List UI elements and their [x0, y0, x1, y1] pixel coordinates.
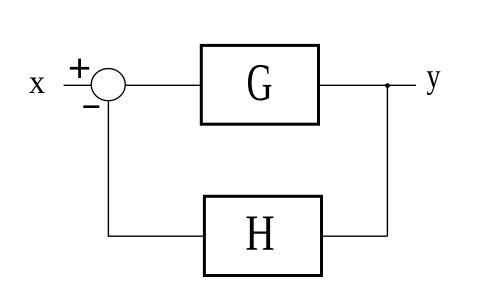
- wire: block H output to left: [108, 235, 202, 237]
- wire: vertical feedback right: [386, 86, 388, 237]
- minus sign at summing junction: [83, 105, 99, 108]
- node dot (pickoff point): [385, 83, 390, 88]
- block H: [204, 196, 321, 275]
- svg-text:y: y: [427, 57, 441, 96]
- svg-text:H: H: [245, 205, 274, 261]
- plus sign at summing junction: [70, 59, 89, 78]
- wire: x to summing junction: [64, 84, 91, 86]
- svg-text:x: x: [29, 63, 46, 101]
- block G: [201, 45, 318, 124]
- wire: summing junction to block G: [126, 84, 201, 86]
- wire: vertical feedback left to summing junction: [107, 102, 109, 237]
- summing junction circle: [91, 69, 125, 101]
- svg-text:G: G: [246, 53, 272, 111]
- wire: block G to output y: [320, 84, 416, 86]
- wire: node to block H input: [323, 235, 387, 237]
